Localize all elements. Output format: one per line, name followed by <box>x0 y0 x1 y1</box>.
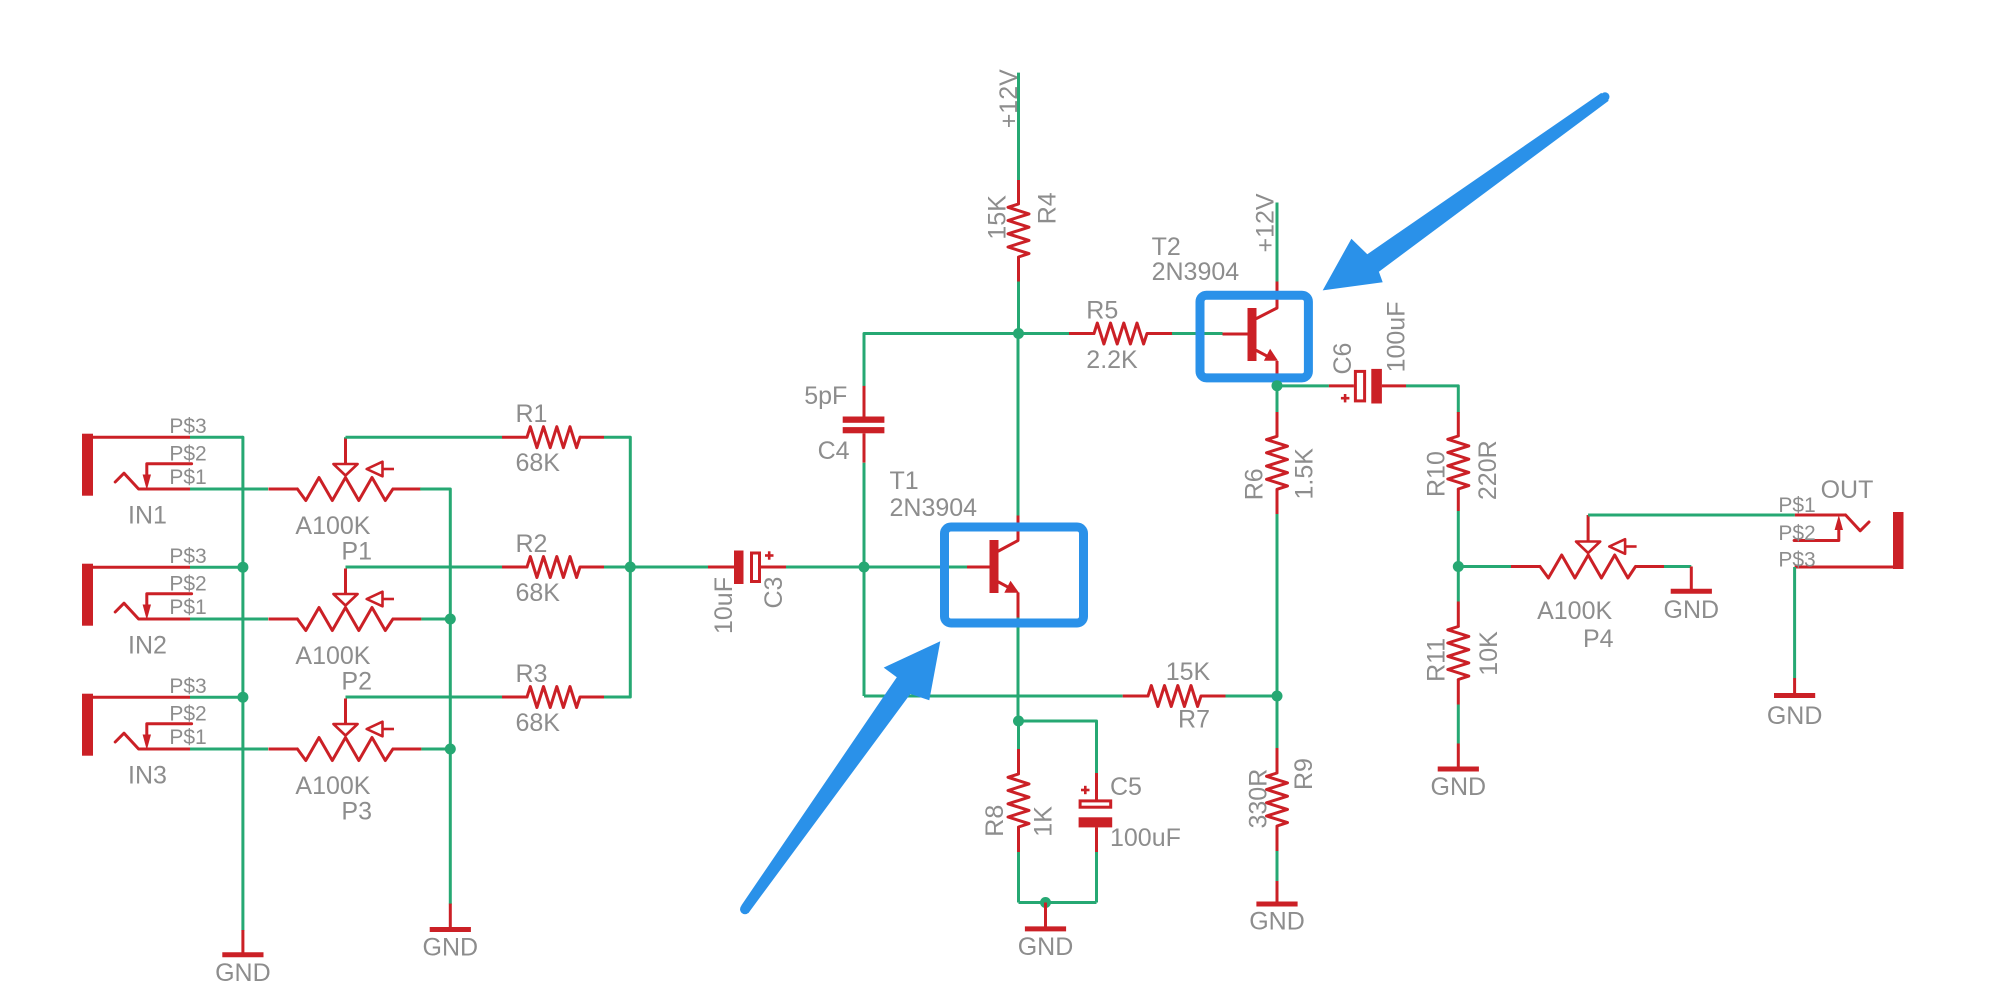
svg-text:R1: R1 <box>516 400 548 428</box>
svg-text:P4: P4 <box>1583 625 1614 653</box>
svg-text:C5: C5 <box>1110 773 1142 801</box>
svg-text:A100K: A100K <box>295 772 370 800</box>
svg-text:P$1: P$1 <box>169 726 206 749</box>
svg-text:GND: GND <box>423 934 479 962</box>
svg-text:GND: GND <box>1767 702 1823 730</box>
svg-text:1K: 1K <box>1030 806 1058 837</box>
svg-text:P$2: P$2 <box>1778 522 1815 545</box>
svg-text:P3: P3 <box>341 798 372 826</box>
svg-text:R10: R10 <box>1423 451 1451 497</box>
svg-text:R8: R8 <box>981 805 1009 837</box>
svg-text:R2: R2 <box>516 530 548 558</box>
svg-text:R6: R6 <box>1240 468 1268 500</box>
svg-text:68K: 68K <box>516 579 561 607</box>
svg-text:15K: 15K <box>984 195 1012 240</box>
svg-text:P$3: P$3 <box>1778 549 1815 572</box>
svg-text:GND: GND <box>1018 933 1074 961</box>
svg-text:15K: 15K <box>1166 658 1211 686</box>
svg-text:IN1: IN1 <box>128 502 167 530</box>
svg-text:P$1: P$1 <box>169 466 206 489</box>
svg-text:R3: R3 <box>516 660 548 688</box>
svg-text:+12V: +12V <box>995 69 1023 128</box>
svg-text:P$3: P$3 <box>169 545 206 568</box>
svg-text:5pF: 5pF <box>804 382 847 410</box>
svg-text:GND: GND <box>1249 908 1305 936</box>
svg-text:P$2: P$2 <box>169 703 206 726</box>
svg-text:P$1: P$1 <box>169 596 206 619</box>
svg-text:GND: GND <box>215 959 271 987</box>
svg-text:10K: 10K <box>1475 631 1503 676</box>
svg-text:2N3904: 2N3904 <box>1152 258 1240 286</box>
svg-text:2.2K: 2.2K <box>1086 346 1138 374</box>
svg-text:100uF: 100uF <box>1383 302 1411 373</box>
svg-text:OUT: OUT <box>1821 476 1874 504</box>
svg-text:A100K: A100K <box>295 642 370 670</box>
svg-text:R7: R7 <box>1178 706 1210 734</box>
svg-text:P$2: P$2 <box>169 573 206 596</box>
svg-text:R5: R5 <box>1086 296 1118 324</box>
svg-text:P$3: P$3 <box>169 675 206 698</box>
svg-text:100uF: 100uF <box>1110 824 1181 852</box>
svg-text:P1: P1 <box>341 538 372 566</box>
svg-text:2N3904: 2N3904 <box>890 494 978 522</box>
svg-text:T2: T2 <box>1152 233 1181 261</box>
svg-text:R9: R9 <box>1290 758 1318 790</box>
svg-text:68K: 68K <box>516 709 561 737</box>
svg-text:C6: C6 <box>1329 343 1357 375</box>
svg-text:IN3: IN3 <box>128 762 167 790</box>
svg-text:10uF: 10uF <box>710 577 738 634</box>
svg-text:+12V: +12V <box>1252 193 1280 252</box>
svg-text:A100K: A100K <box>295 512 370 540</box>
svg-text:P$2: P$2 <box>169 443 206 466</box>
svg-text:C4: C4 <box>818 437 850 465</box>
svg-text:220R: 220R <box>1474 440 1502 500</box>
svg-text:A100K: A100K <box>1537 597 1612 625</box>
svg-text:T1: T1 <box>890 467 919 495</box>
svg-text:1.5K: 1.5K <box>1290 448 1318 500</box>
svg-text:68K: 68K <box>516 449 561 477</box>
svg-text:IN2: IN2 <box>128 632 167 660</box>
svg-text:GND: GND <box>1664 596 1720 624</box>
svg-text:P$1: P$1 <box>1778 494 1815 517</box>
svg-text:P$3: P$3 <box>169 415 206 438</box>
svg-text:R4: R4 <box>1033 192 1061 224</box>
svg-text:R11: R11 <box>1423 638 1451 682</box>
svg-text:C3: C3 <box>760 577 788 609</box>
svg-text:GND: GND <box>1431 773 1487 801</box>
svg-text:P2: P2 <box>341 668 372 696</box>
svg-text:330R: 330R <box>1245 769 1273 829</box>
